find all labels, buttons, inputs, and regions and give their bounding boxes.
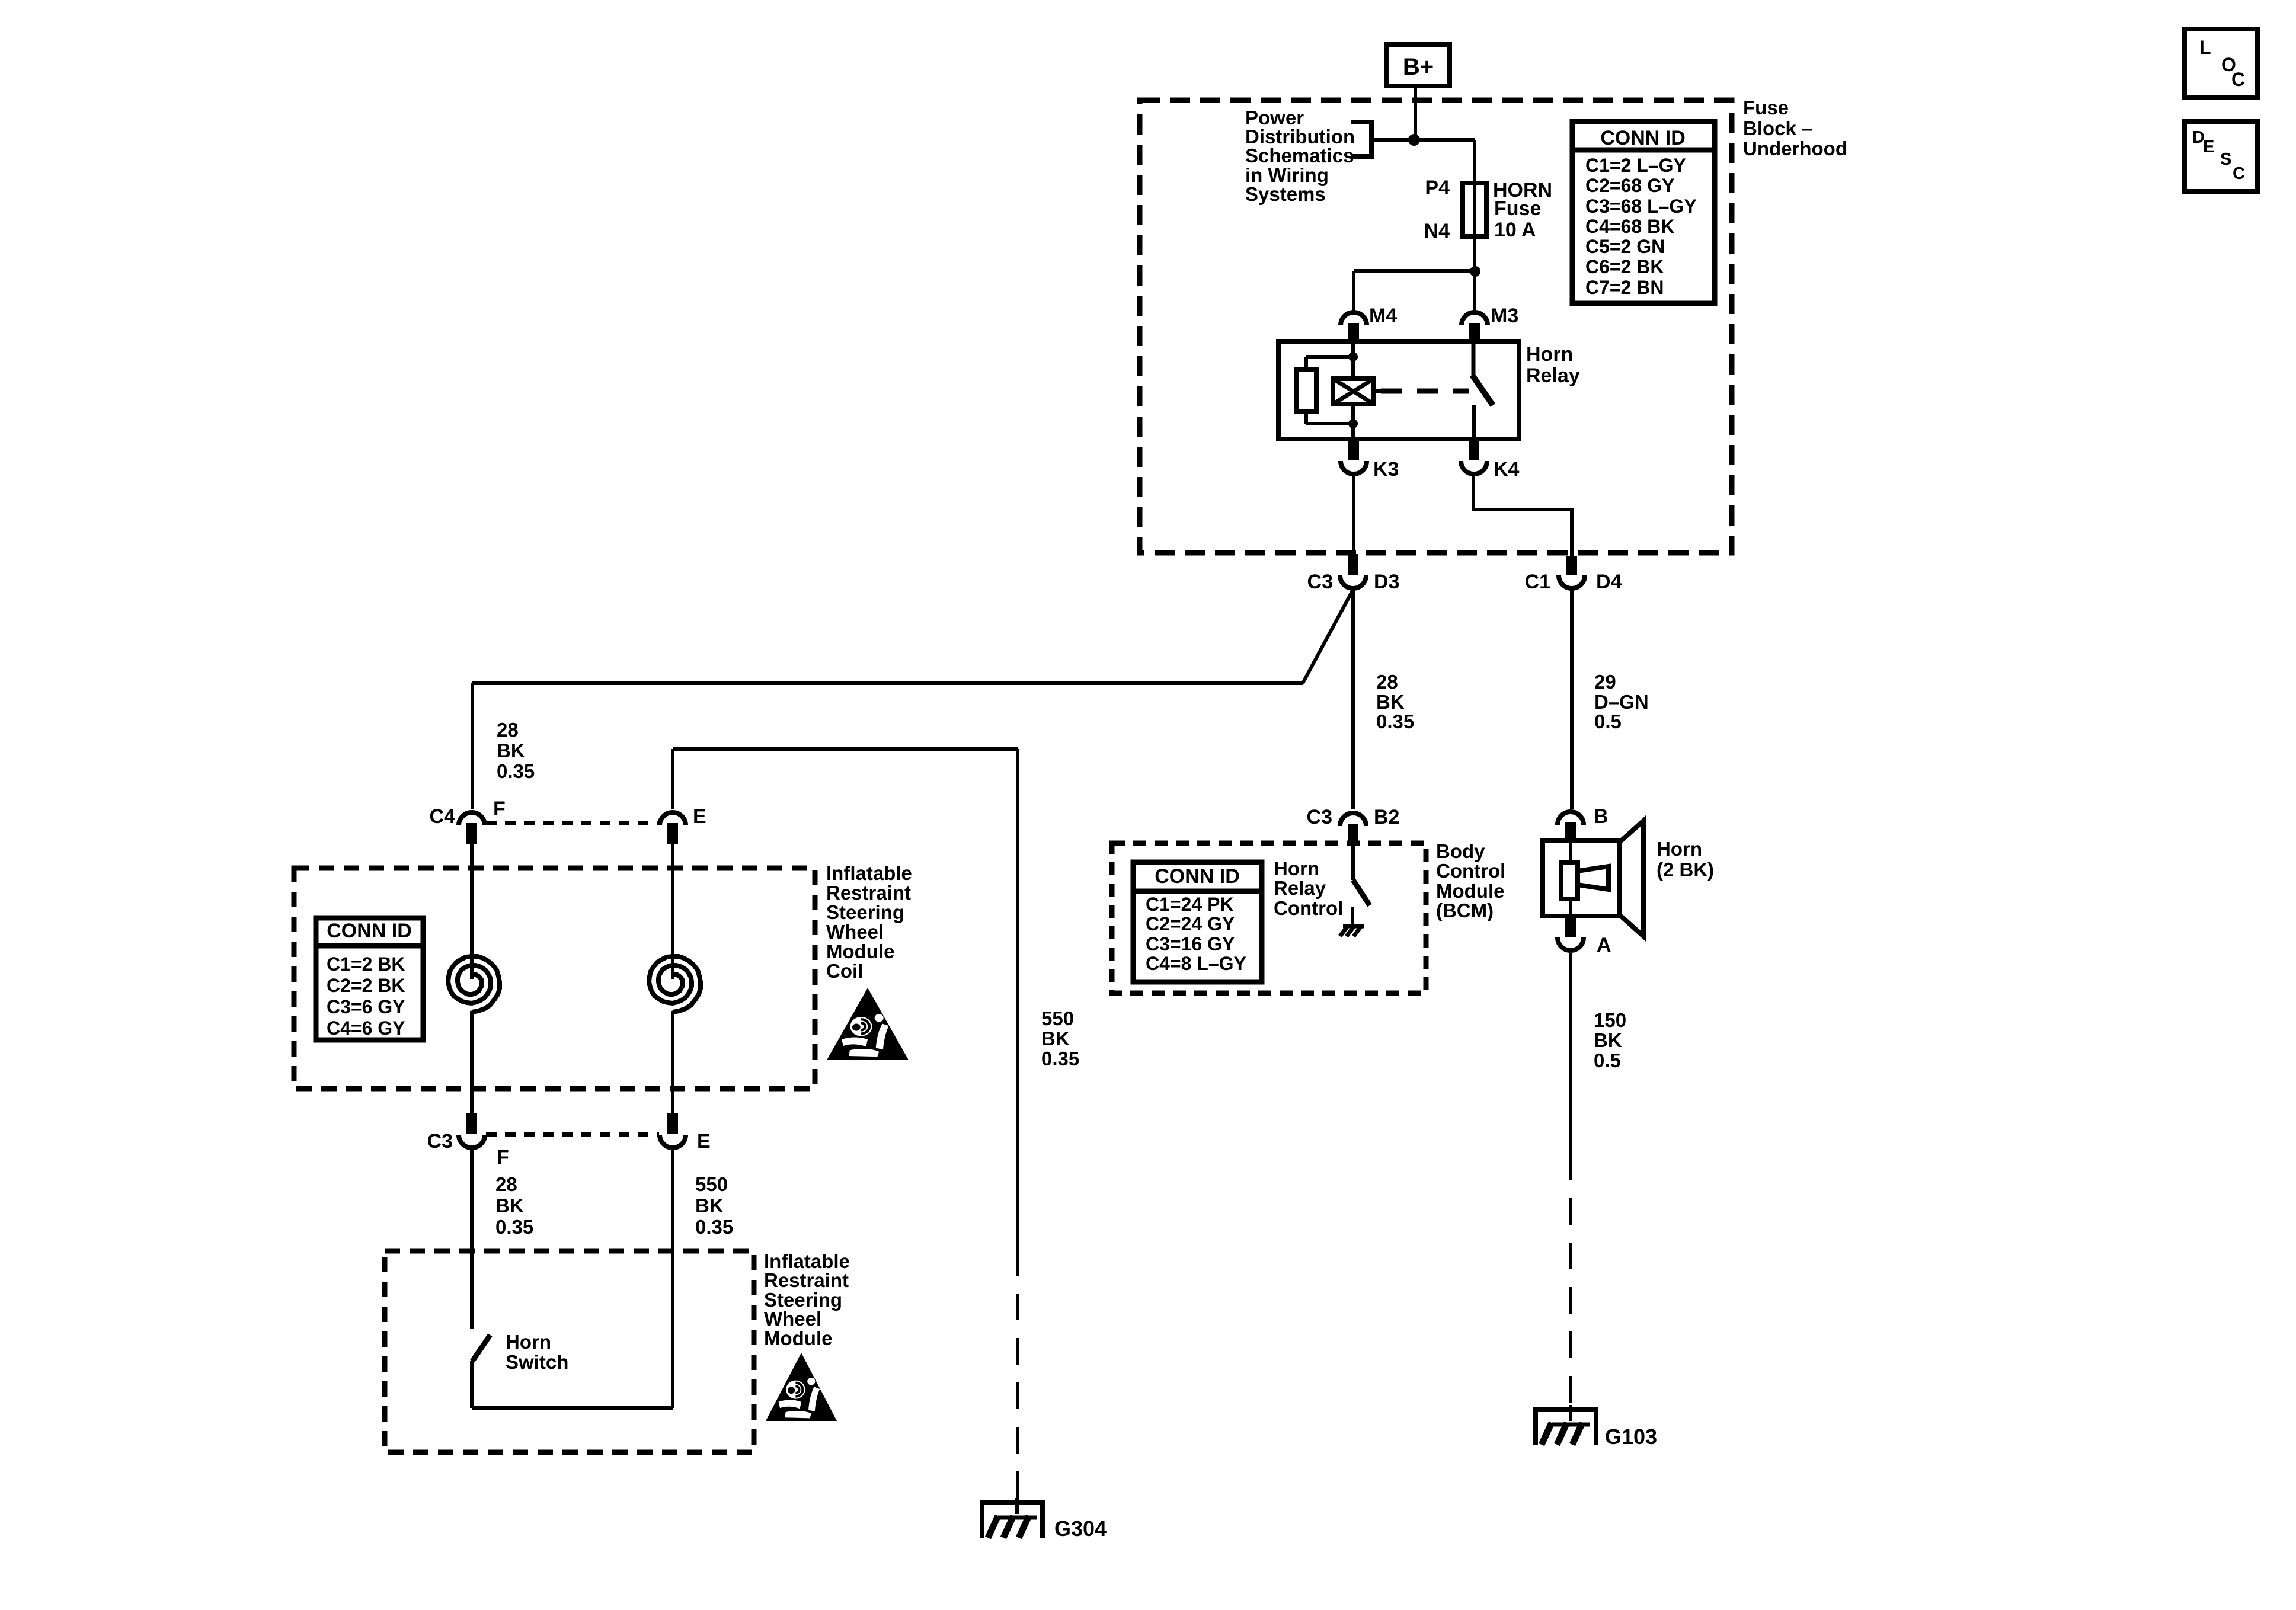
svg-text:0.35: 0.35 [495,1216,533,1238]
svg-text:Module: Module [826,940,894,962]
svg-text:C4=6 GY: C4=6 GY [327,1017,405,1039]
svg-text:M3: M3 [1491,305,1518,327]
svg-text:0.35: 0.35 [1376,710,1414,732]
svg-text:F: F [497,1146,509,1169]
svg-text:Coil: Coil [826,960,863,982]
svg-text:C4=8 L–GY: C4=8 L–GY [1146,953,1246,974]
svg-text:Steering: Steering [826,901,904,923]
svg-text:0.5: 0.5 [1594,710,1622,732]
svg-text:BK: BK [495,1195,524,1217]
svg-text:C1=2 BK: C1=2 BK [327,953,405,975]
svg-text:CONN ID: CONN ID [327,920,412,942]
svg-text:B+: B+ [1403,54,1434,80]
svg-text:C1=2 L–GY: C1=2 L–GY [1585,155,1686,176]
svg-text:Module: Module [764,1327,832,1349]
svg-text:CONN ID: CONN ID [1155,865,1240,888]
svg-text:A: A [1597,934,1611,956]
svg-text:C: C [2233,164,2245,183]
svg-text:Wheel: Wheel [826,921,884,943]
svg-text:Block –: Block – [1743,117,1812,139]
svg-text:B2: B2 [1374,806,1399,828]
svg-text:E: E [2203,137,2214,156]
svg-text:C2=68 GY: C2=68 GY [1585,175,1674,196]
svg-text:Fuse: Fuse [1494,197,1541,220]
svg-text:P4: P4 [1425,177,1450,199]
svg-text:C5=2 GN: C5=2 GN [1585,236,1665,257]
svg-text:Systems: Systems [1245,183,1326,205]
svg-text:0.35: 0.35 [1041,1048,1079,1070]
svg-text:C1: C1 [1525,571,1550,593]
svg-text:Horn: Horn [506,1331,551,1353]
svg-text:C3: C3 [1307,571,1333,593]
svg-text:(2 BK): (2 BK) [1657,859,1714,881]
svg-text:F: F [493,798,506,820]
svg-text:29: 29 [1594,671,1616,693]
svg-text:(BCM): (BCM) [1436,900,1494,921]
svg-text:Underhood: Underhood [1743,137,1847,159]
svg-text:0.35: 0.35 [497,760,535,782]
svg-text:0.5: 0.5 [1594,1049,1621,1071]
svg-text:K3: K3 [1373,458,1399,481]
svg-text:Restraint: Restraint [826,882,911,904]
svg-text:Inflatable: Inflatable [826,862,912,884]
svg-text:C: C [2231,69,2245,90]
svg-text:CONN ID: CONN ID [1600,127,1686,149]
svg-text:D3: D3 [1374,571,1399,593]
svg-text:C3=68 L–GY: C3=68 L–GY [1585,196,1697,217]
svg-text:Horn: Horn [1526,343,1573,366]
svg-text:Switch: Switch [506,1351,568,1373]
svg-text:BK: BK [695,1195,724,1217]
svg-text:C7=2 BN: C7=2 BN [1585,277,1664,298]
svg-text:C3=16 GY: C3=16 GY [1146,933,1235,955]
svg-text:28: 28 [1376,671,1398,693]
svg-text:Control: Control [1274,897,1343,919]
svg-text:28: 28 [495,1173,517,1195]
svg-text:Module: Module [1436,880,1504,902]
svg-text:D4: D4 [1596,571,1622,593]
svg-text:G304: G304 [1054,1516,1107,1541]
svg-text:Wheel: Wheel [764,1308,821,1330]
svg-text:K4: K4 [1494,458,1520,481]
svg-text:M4: M4 [1369,305,1397,327]
svg-text:C3: C3 [427,1130,453,1153]
svg-text:D–GN: D–GN [1594,691,1649,713]
svg-text:Restraint: Restraint [764,1269,849,1291]
svg-text:150: 150 [1594,1009,1626,1031]
svg-text:28: 28 [497,719,519,741]
svg-text:BK: BK [1376,691,1405,713]
svg-text:C2=2 BK: C2=2 BK [327,975,405,996]
svg-text:550: 550 [1041,1007,1074,1029]
svg-text:C4: C4 [430,805,456,828]
svg-text:C3=6 GY: C3=6 GY [327,996,405,1017]
svg-text:B: B [1594,805,1609,828]
svg-text:C2=24 GY: C2=24 GY [1146,913,1235,934]
svg-text:BK: BK [1594,1029,1622,1051]
svg-text:C3: C3 [1307,806,1332,828]
svg-text:Relay: Relay [1274,877,1326,899]
svg-text:550: 550 [695,1173,728,1195]
svg-text:10 A: 10 A [1494,219,1536,241]
svg-text:S: S [2220,150,2231,169]
svg-text:Control: Control [1436,860,1505,882]
svg-text:C1=24 PK: C1=24 PK [1146,894,1234,915]
svg-text:E: E [697,1130,711,1153]
svg-text:Body: Body [1436,840,1485,862]
svg-text:E: E [693,805,706,828]
svg-text:0.35: 0.35 [695,1216,733,1238]
svg-text:BK: BK [1041,1028,1070,1049]
svg-text:Relay: Relay [1526,364,1580,387]
svg-text:C6=2 BK: C6=2 BK [1585,256,1664,277]
svg-text:N4: N4 [1424,220,1450,242]
svg-text:L: L [2199,37,2211,58]
svg-text:Horn: Horn [1274,857,1319,879]
svg-text:C4=68 BK: C4=68 BK [1585,216,1674,237]
svg-text:BK: BK [497,740,525,761]
svg-text:Schematics: Schematics [1245,145,1354,167]
svg-text:G103: G103 [1605,1425,1657,1449]
svg-text:Fuse: Fuse [1743,97,1789,119]
svg-text:Horn: Horn [1657,838,1702,860]
